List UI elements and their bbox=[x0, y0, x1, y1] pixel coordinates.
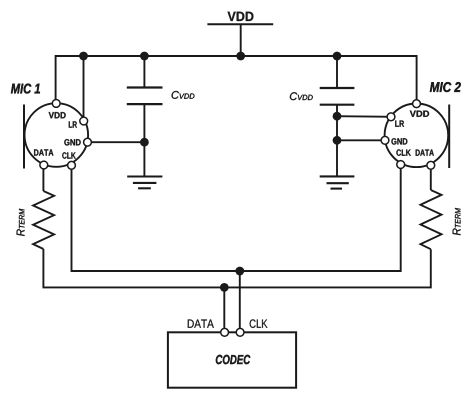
pin DATA mic2 bbox=[427, 161, 435, 169]
value label C_VDD left bbox=[172, 91, 195, 99]
power symbol VDD bbox=[207, 12, 273, 56]
pin CLK mic1 bbox=[68, 161, 76, 169]
mic2 port line bbox=[448, 105, 450, 169]
pin CLK codec bbox=[236, 328, 244, 336]
wire MIC1 DATA to R1 bbox=[42, 165, 44, 191]
pin LR mic2 bbox=[387, 113, 395, 121]
codec box bbox=[168, 332, 296, 387]
value label R_TERM right bbox=[453, 208, 461, 235]
junction DATA bus bbox=[220, 283, 229, 292]
pin VDD mic2 bbox=[413, 100, 421, 108]
mic1 body bbox=[25, 103, 89, 167]
junction C2-GND2 bbox=[333, 136, 342, 145]
pin label DATA mic1 bbox=[34, 149, 53, 155]
pin label LR mic2 bbox=[395, 121, 404, 127]
junction rail-LR1 bbox=[79, 52, 88, 61]
capacitor C_VDD right bbox=[320, 88, 355, 105]
wire C2 bottom to ground bbox=[336, 105, 338, 177]
label MIC 2 bbox=[430, 82, 461, 92]
wire MIC1 GND bbox=[87, 141, 144, 143]
ground left bbox=[127, 177, 162, 189]
pin label CLK mic1 bbox=[62, 152, 75, 158]
pin label LR mic1 bbox=[69, 121, 77, 127]
pin label GND mic1 bbox=[64, 139, 80, 145]
ground right bbox=[320, 176, 355, 188]
mic2 body bbox=[385, 104, 449, 168]
resistor R_TERM right bbox=[421, 190, 442, 249]
microphone MIC2 bbox=[381, 100, 449, 169]
wire CLK bus to codec bbox=[239, 271, 241, 332]
codec U1 bbox=[168, 328, 296, 387]
pin VDD mic1 bbox=[52, 100, 60, 108]
wire R1 to DATA bus bbox=[43, 249, 430, 287]
junction C1-GND1 bbox=[140, 138, 149, 147]
wire VDD rail bbox=[56, 56, 417, 104]
capacitor C_VDD left bbox=[127, 88, 163, 105]
junction rail-C2 bbox=[333, 52, 342, 61]
label CODEC bbox=[216, 355, 250, 364]
junction rail-supply bbox=[236, 52, 245, 61]
pin GND mic2 bbox=[381, 136, 389, 144]
wire MIC1 LR drop bbox=[83, 56, 85, 121]
wire DATA bus to codec bbox=[223, 287, 225, 332]
pin label VDD mic2 bbox=[410, 111, 429, 117]
pin LR mic1 bbox=[80, 117, 88, 125]
label DATA codec bbox=[188, 320, 214, 328]
value label C_VDD right bbox=[290, 92, 313, 100]
resistor R_TERM left bbox=[33, 191, 54, 249]
pin DATA codec bbox=[221, 328, 229, 336]
wire C2 top bbox=[336, 56, 338, 88]
pin GND mic1 bbox=[84, 138, 92, 146]
junction CLK bus bbox=[235, 267, 244, 276]
wire C1 bottom to ground bbox=[143, 104, 145, 176]
wire MIC2 LR bbox=[337, 115, 391, 118]
wire MIC2 DATA to R2 bbox=[430, 166, 432, 191]
value label R_TERM left bbox=[17, 209, 25, 236]
mic1 port line bbox=[23, 105, 25, 169]
pin label CLK mic2 bbox=[396, 149, 410, 155]
microphone MIC1 bbox=[24, 100, 91, 170]
label CLK codec bbox=[250, 319, 268, 328]
pin label GND mic2 bbox=[391, 138, 407, 144]
label MIC 1 bbox=[11, 84, 40, 94]
pin CLK mic2 bbox=[397, 161, 405, 169]
pin label VDD mic1 bbox=[49, 112, 66, 118]
wire C1 top bbox=[143, 56, 145, 88]
junction C2-LR2 bbox=[333, 112, 342, 121]
pin DATA mic1 bbox=[40, 161, 48, 169]
wire MIC1 CLK to CLK bus bbox=[72, 165, 401, 272]
junction rail-C1 bbox=[140, 52, 149, 61]
wire MIC2 GND bbox=[337, 139, 385, 141]
pin label DATA mic2 bbox=[416, 150, 434, 156]
